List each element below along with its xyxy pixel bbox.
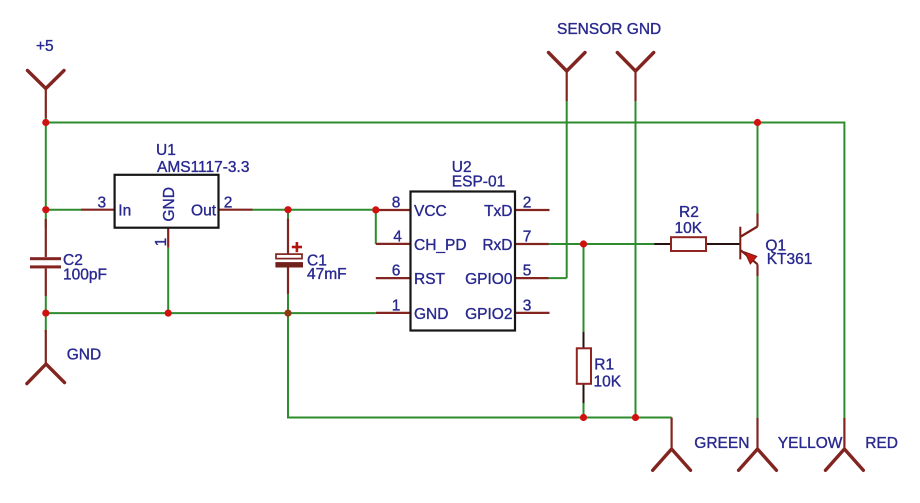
svg-text:GPIO0: GPIO0 <box>465 271 513 288</box>
svg-text:2: 2 <box>523 195 532 212</box>
svg-text:5: 5 <box>523 263 532 280</box>
svg-text:4: 4 <box>393 229 402 246</box>
svg-text:RxD: RxD <box>482 237 512 254</box>
svg-text:2: 2 <box>224 195 233 212</box>
svg-text:10K: 10K <box>675 220 703 237</box>
svg-text:GREEN: GREEN <box>694 435 749 452</box>
svg-text:U1: U1 <box>156 142 176 159</box>
svg-text:+5: +5 <box>36 38 54 55</box>
svg-text:SENSOR GND: SENSOR GND <box>557 21 661 38</box>
svg-text:CH_PD: CH_PD <box>414 237 467 254</box>
svg-text:Out: Out <box>191 203 217 220</box>
svg-text:100pF: 100pF <box>63 267 107 284</box>
svg-text:AMS1117-3.3: AMS1117-3.3 <box>157 159 249 176</box>
svg-text:VCC: VCC <box>414 203 447 220</box>
svg-text:47mF: 47mF <box>307 266 347 283</box>
svg-text:In: In <box>118 202 131 219</box>
svg-text:GPIO2: GPIO2 <box>465 306 512 323</box>
svg-text:RED: RED <box>865 435 898 452</box>
svg-text:10K: 10K <box>594 374 622 391</box>
svg-text:RST: RST <box>414 271 446 288</box>
svg-text:GND: GND <box>414 306 448 323</box>
svg-text:GND: GND <box>67 347 101 364</box>
svg-text:KT361: KT361 <box>767 251 813 268</box>
svg-text:R2: R2 <box>679 204 699 221</box>
svg-text:TxD: TxD <box>484 203 512 220</box>
svg-text:8: 8 <box>392 195 401 212</box>
svg-text:1: 1 <box>392 297 401 314</box>
svg-text:R1: R1 <box>594 357 614 374</box>
svg-text:3: 3 <box>523 297 532 314</box>
svg-text:YELLOW: YELLOW <box>778 435 843 452</box>
svg-text:GND: GND <box>161 187 178 221</box>
svg-text:7: 7 <box>523 229 532 246</box>
svg-text:6: 6 <box>392 263 401 280</box>
svg-text:ESP-01: ESP-01 <box>452 174 505 191</box>
svg-text:3: 3 <box>97 195 106 212</box>
svg-text:1: 1 <box>153 238 170 247</box>
